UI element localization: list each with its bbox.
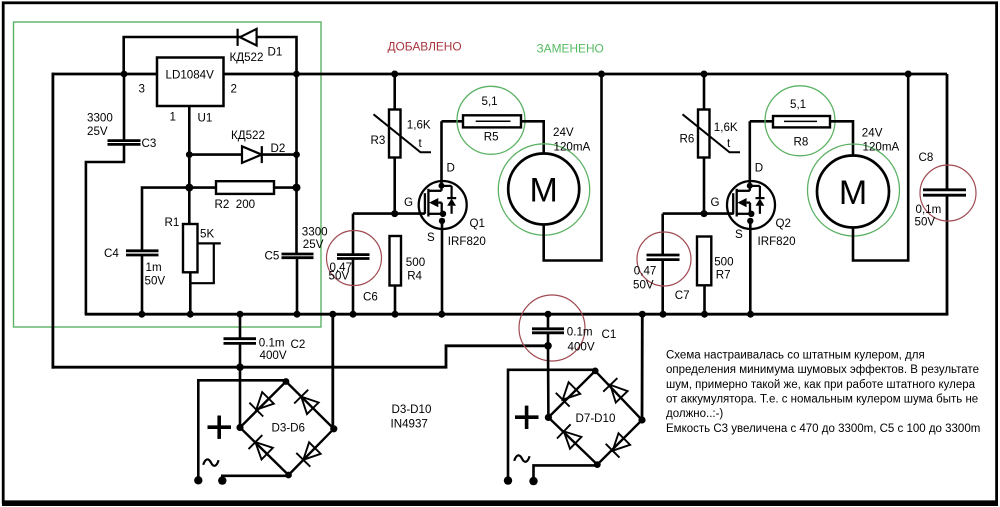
wire right vertical drop (top) [946, 74, 949, 191]
label D2 [271, 142, 286, 155]
diode D6 (bridge1 bottom-right arm) [296, 442, 320, 466]
wire C7 top [661, 214, 664, 255]
label U1 [198, 112, 213, 125]
wire C2 top [239, 314, 242, 339]
wire Q1 drain [440, 121, 443, 186]
node gate1 [391, 210, 398, 217]
svg-text:D7-D10: D7-D10 [576, 412, 616, 425]
node R2 right [293, 184, 301, 192]
resistor R7 [697, 237, 711, 286]
wire R6 bottom [703, 158, 706, 214]
wire bridge1 + drop [239, 367, 242, 427]
highlight circle around C1 [519, 295, 585, 361]
wire C1 top [547, 314, 550, 329]
capacitor C1 [532, 329, 564, 333]
svg-text:D3-D6: D3-D6 [272, 421, 306, 434]
wire R1 bottom [189, 272, 192, 315]
highlight circle around motor M1 [498, 144, 589, 235]
wire R1 wiper [190, 243, 221, 283]
resistor R8 [773, 116, 830, 127]
label motor1 rating [553, 126, 591, 154]
svg-text:1: 1 [170, 111, 176, 124]
svg-text:24V: 24V [553, 126, 574, 139]
wire C4 top [142, 188, 189, 251]
green highlight box (regulator section) [14, 22, 322, 327]
node C1-gnd [545, 311, 552, 318]
wire C2 bottom [239, 343, 242, 367]
svg-text:Емкость С3 увеличена с 470 до: Емкость С3 увеличена с 470 до 3300m, С5 … [666, 423, 980, 435]
label R4 [407, 270, 422, 283]
diode D8 (bridge2 top-right arm) [603, 378, 627, 402]
capacitor C2 [224, 339, 257, 344]
svg-text:Схема настраивалась со штатным: Схема настраивалась со штатным кулером, … [666, 350, 925, 362]
wire R5 to motor1 [521, 121, 544, 154]
label C3 [142, 137, 157, 150]
svg-text:LD1084V: LD1084V [166, 69, 215, 82]
label Q2 G [711, 196, 720, 209]
svg-text:R7: R7 [716, 269, 731, 282]
label Q1 type [448, 235, 486, 248]
wire Q1 drain to R5 [442, 120, 464, 123]
wire R6 top [703, 74, 706, 110]
wire bridge2 - rise [641, 314, 644, 420]
wire C3 top [123, 74, 126, 141]
transistor Q1 IRF820 [419, 181, 467, 229]
label Q2 type [758, 235, 796, 248]
svg-text:должно..:-): должно..:-) [666, 408, 723, 420]
label Q1 S [427, 231, 435, 244]
node ADJ [185, 184, 193, 192]
capacitor C8 [923, 190, 966, 195]
svg-text:50V: 50V [329, 270, 350, 283]
node rail-D1 right [293, 71, 300, 78]
wire Q1 source [441, 221, 444, 314]
svg-text:R5: R5 [484, 130, 499, 143]
label C1 [602, 328, 617, 341]
wire Q2 drain to R8 [750, 120, 773, 123]
label R3 value [407, 119, 431, 132]
wire bridge1 ac2 [218, 476, 288, 485]
highlight circle around C7 [637, 232, 691, 286]
svg-text:25V: 25V [303, 238, 324, 251]
label R8 [794, 136, 809, 149]
label C4 [104, 247, 119, 260]
bridge2 ac symbol [514, 455, 529, 461]
label R4 value [406, 256, 425, 269]
diode D2 [242, 146, 262, 163]
label R7 value [714, 255, 733, 268]
node R7-gnd [701, 311, 708, 318]
wire C4 bottom [141, 255, 144, 314]
wire Q2 drain [748, 121, 751, 186]
svg-text:IN4937: IN4937 [391, 418, 428, 431]
svg-text:3300: 3300 [87, 112, 113, 125]
svg-text:5,1: 5,1 [482, 95, 498, 108]
capacitor C4 [126, 251, 159, 255]
label C4 value [145, 261, 166, 288]
wire R4 bottom [394, 286, 397, 315]
highlight circle around motor M2 [808, 144, 900, 236]
wire ground bus [85, 313, 948, 316]
label Q1 [470, 217, 485, 230]
wire top rail right segment [223, 73, 948, 76]
label C1 value [567, 326, 595, 354]
wire C3 ground hook [86, 144, 124, 315]
svg-text:IRF820: IRF820 [758, 235, 796, 248]
node D2 anode [186, 151, 193, 158]
svg-text:D3-D10: D3-D10 [392, 403, 432, 416]
node C2-gnd [237, 311, 244, 318]
label C8 [919, 151, 934, 164]
capacitor C6 [337, 255, 370, 259]
highlight circle around C6 [327, 231, 382, 286]
label C5 [265, 250, 280, 263]
svg-text:G: G [711, 196, 720, 209]
svg-text:500: 500 [714, 255, 733, 268]
wire bridge2 ac2 [529, 465, 597, 485]
wire left vertical drop [52, 73, 55, 369]
label C5 value [302, 225, 328, 251]
wire R7 bottom [703, 285, 706, 314]
label bridge2 [576, 412, 616, 425]
wire bridge2 + drop [547, 346, 550, 418]
svg-text:D1: D1 [268, 45, 283, 58]
label D3-D10 types [391, 403, 432, 430]
svg-text:D: D [447, 161, 455, 174]
svg-text:0,1m: 0,1m [916, 203, 942, 216]
label C6 value [329, 261, 353, 282]
node C1 lower [544, 342, 552, 350]
svg-text:R6: R6 [680, 132, 695, 145]
node R1-gnd [187, 311, 194, 318]
wire Q2 source [749, 221, 752, 314]
svg-text:0,47: 0,47 [634, 265, 657, 278]
svg-text:5K: 5K [200, 227, 214, 240]
label R6 value [714, 121, 738, 134]
svg-text:50V: 50V [145, 275, 166, 288]
svg-text:C1: C1 [602, 328, 617, 341]
wire C5 bottom [296, 258, 299, 315]
diode D4 (bridge1 top-right arm) [294, 390, 318, 414]
bridge1 plus symbol [208, 416, 232, 439]
wire D2 row [189, 153, 296, 156]
svg-text:0.1m: 0.1m [567, 326, 593, 339]
svg-text:от аккумулятора. Т.е. с номаль: от аккумулятора. Т.е. с номальным кулеро… [666, 393, 978, 405]
label C2 value [259, 337, 287, 363]
svg-text:определения минимума шумовых э: определения минимума шумовых эффектов. В… [666, 364, 979, 376]
label ЗАМЕНЕНО [537, 42, 604, 56]
resistor R4 [390, 236, 402, 286]
wire top rail left segment [52, 73, 158, 76]
wire gate1 row [353, 212, 425, 215]
wire C1 bottom [547, 333, 550, 346]
svg-text:S: S [427, 231, 435, 244]
svg-text:M: M [839, 174, 867, 212]
op-amp U1 regulator LD1084V box [157, 58, 224, 107]
node Q1 source-gnd [438, 311, 445, 318]
svg-text:R4: R4 [407, 270, 422, 283]
label C7 [675, 289, 690, 302]
label Q1 D [447, 161, 455, 174]
resistor R3 (thermistor) [389, 110, 401, 158]
label LD1084V [166, 69, 215, 82]
wire lower B+ bus [52, 346, 549, 367]
label R5 [484, 130, 499, 143]
label R3 t [419, 137, 423, 150]
svg-text:1m: 1m [146, 261, 162, 274]
label D2 value [231, 129, 265, 142]
diode D9 (bridge2 bottom-left arm) [557, 424, 581, 448]
svg-text:ДОБАВЛЕНО: ДОБАВЛЕНО [388, 39, 462, 53]
bridge2 plus symbol [515, 406, 539, 429]
label ДОБАВЛЕНО [388, 39, 462, 53]
svg-text:3: 3 [139, 83, 145, 96]
wire right vertical drop (bottom) [946, 195, 949, 316]
label D1 [268, 45, 283, 58]
svg-text:C8: C8 [919, 151, 934, 164]
svg-text:U1: U1 [198, 112, 213, 125]
capacitor C7 [647, 255, 680, 260]
node D2 cathode [293, 151, 300, 158]
svg-text:24V: 24V [862, 127, 883, 140]
wire bridge2 ac1 [504, 370, 595, 485]
svg-text:R2 200: R2 200 [215, 198, 256, 211]
wire motor2 return [853, 74, 908, 261]
svg-text:C7: C7 [675, 289, 690, 302]
svg-text:50V: 50V [915, 216, 936, 229]
node bridge2-gnd [639, 311, 646, 318]
label C3 value [87, 112, 113, 138]
bridge rectifier D3-D6 diamond [236, 378, 337, 478]
svg-text:120mA: 120mA [554, 140, 591, 153]
svg-text:шум, примерно такой же, как пр: шум, примерно такой же, как при работе ш… [666, 379, 976, 391]
svg-text:400V: 400V [260, 349, 287, 362]
wire D1 loop [124, 37, 297, 75]
svg-text:25V: 25V [87, 125, 108, 138]
label R5 value [482, 95, 498, 108]
diode D1 [238, 29, 257, 46]
wire C6 top [352, 214, 355, 255]
wire R3 bottom [393, 158, 396, 214]
label C7 value [633, 265, 656, 292]
node rail-D1 left [121, 71, 128, 78]
node C2 lower bus [236, 363, 244, 371]
bridge rectifier D7-D10 diamond [545, 368, 646, 469]
svg-text:C3: C3 [142, 137, 157, 150]
node R4-gnd [392, 311, 399, 318]
svg-text:R8: R8 [794, 136, 809, 149]
wire bridge1 - rise [331, 314, 334, 429]
svg-text:1,6K: 1,6K [407, 119, 431, 132]
diode D7 (bridge2 top-left arm) [556, 382, 580, 406]
svg-text:1,6K: 1,6K [714, 121, 738, 134]
label Q2 S [735, 228, 743, 241]
svg-text:Q2: Q2 [776, 217, 791, 230]
motor M1 [508, 154, 579, 225]
svg-text:C4: C4 [104, 247, 119, 260]
label R7 [716, 269, 731, 282]
label R6 t [727, 137, 731, 150]
label Q1 G [404, 196, 413, 209]
label motor2 rating [862, 127, 900, 154]
label R1 value [200, 227, 214, 240]
node rail-motor1 return [598, 71, 605, 78]
label C2 [291, 338, 306, 351]
svg-text:M: M [530, 172, 558, 210]
svg-text:50V: 50V [633, 279, 654, 292]
motor M2 [817, 156, 889, 228]
label R1 [165, 216, 180, 229]
wire R2 row [189, 186, 296, 189]
svg-text:C2: C2 [291, 338, 306, 351]
svg-text:500: 500 [406, 256, 425, 269]
label C6 [363, 290, 378, 303]
resistor R5 [463, 115, 521, 127]
wire motor1 return [544, 74, 602, 261]
label C8 value [915, 203, 942, 228]
svg-text:2: 2 [231, 83, 237, 96]
wire bridge1 ac1 [194, 380, 286, 484]
svg-text:3300: 3300 [302, 225, 328, 238]
label R6 [680, 132, 695, 145]
svg-text:ЗАМЕНЕНО: ЗАМЕНЕНО [537, 42, 604, 56]
wire C7 bottom [661, 260, 664, 315]
svg-text:R3: R3 [371, 134, 386, 147]
node C4-gnd [138, 311, 145, 318]
capacitor C3 [108, 141, 141, 145]
label Q2 [776, 217, 791, 230]
highlight circle around C8 [920, 165, 976, 221]
diode D3 (bridge1 top-left arm) [249, 392, 273, 416]
label D1 value [230, 51, 264, 64]
capacitor C5 [282, 254, 314, 258]
node bridge1-gnd [329, 311, 336, 318]
svg-text:400V: 400V [568, 341, 595, 354]
node Q2 source-gnd [747, 311, 754, 318]
pin 1 label [170, 111, 176, 124]
wire R8 to motor2 [830, 121, 853, 155]
svg-text:0.1m: 0.1m [259, 337, 285, 350]
highlight circle around R5 [457, 86, 525, 154]
node C5-gnd [294, 311, 301, 318]
svg-text:G: G [404, 196, 413, 209]
svg-text:C6: C6 [363, 290, 378, 303]
pin 3 label [139, 83, 145, 96]
transistor Q2 IRF820 [727, 181, 775, 229]
resistor R6 (thermistor) [698, 110, 710, 158]
highlight circle around R8 [765, 86, 835, 156]
svg-text:D: D [755, 161, 763, 174]
diode D10 (bridge2 bottom-right arm) [606, 433, 630, 457]
node C6-gnd [350, 311, 357, 318]
node rail-R3 [391, 71, 398, 78]
svg-text:S: S [735, 228, 743, 241]
bridge1 ac symbol [203, 459, 218, 465]
svg-text:IRF820: IRF820 [448, 235, 486, 248]
label Q2 D [755, 161, 763, 174]
thermistor R3 diagonal [374, 114, 432, 152]
wire output node vertical [295, 74, 298, 254]
svg-text:R1: R1 [165, 216, 180, 229]
diode D5 (bridge1 bottom-left arm) [249, 435, 273, 459]
pin 2 label [231, 83, 237, 96]
resistor R1 (5K pot) [183, 224, 198, 272]
resistor R2 [216, 181, 274, 194]
wire C6 bottom [352, 259, 355, 315]
node rail-motor2 return [905, 71, 912, 78]
svg-text:5,1: 5,1 [790, 98, 806, 111]
svg-text:D2: D2 [271, 142, 286, 155]
svg-text:КД522: КД522 [231, 129, 265, 142]
node rail-R6 [701, 71, 708, 78]
svg-text:Q1: Q1 [470, 217, 485, 230]
label R2 [215, 198, 256, 211]
label R8 value [790, 98, 806, 111]
label bridge1 [272, 421, 306, 434]
node C7-gnd [660, 311, 667, 318]
thermistor R6 diagonal [683, 114, 741, 152]
note text block [666, 350, 980, 435]
wire R3 top [393, 74, 396, 110]
svg-text:КД522: КД522 [230, 51, 264, 64]
svg-text:120mA: 120mA [863, 141, 900, 154]
wire gate2 row [663, 212, 734, 215]
label R3 [371, 134, 386, 147]
wire U1 pin1 drop [188, 106, 191, 225]
svg-text:C5: C5 [265, 250, 280, 263]
node gate2 [701, 210, 708, 217]
